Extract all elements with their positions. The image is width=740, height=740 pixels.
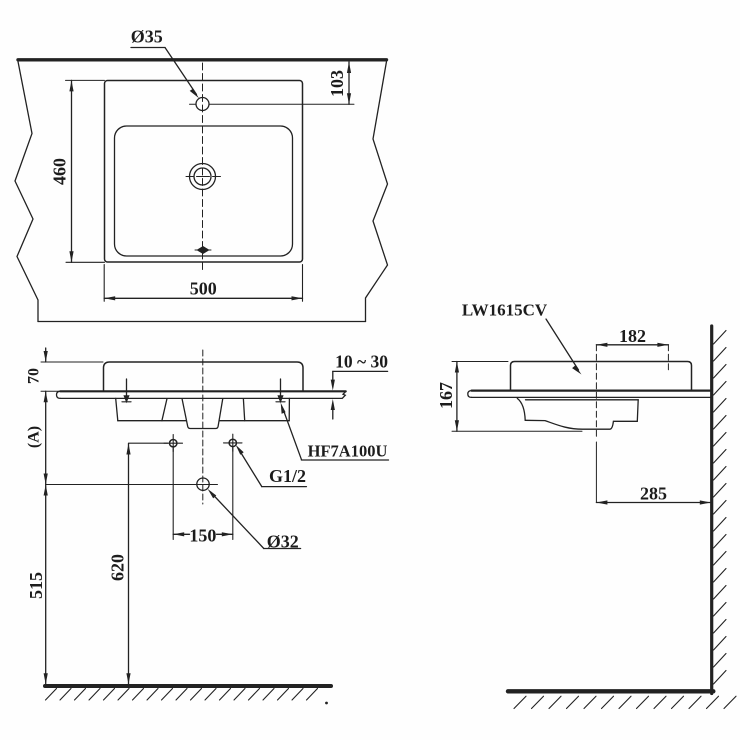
dim 460 ext bottom xyxy=(66,261,105,263)
dim 620 connector xyxy=(129,442,168,444)
dim 182 line xyxy=(596,344,668,346)
under-basin bottom right xyxy=(220,420,289,422)
fixing bolt left xyxy=(126,379,128,396)
floor (side) xyxy=(508,689,713,693)
svg-text:500: 500 xyxy=(190,278,217,298)
dim 285 line xyxy=(596,502,710,504)
label 10~30 underline xyxy=(333,370,388,372)
drain inner circle xyxy=(194,168,211,185)
dim 500 ext right xyxy=(302,265,304,302)
dim (A) line xyxy=(45,391,47,484)
dim 460 line xyxy=(71,80,73,262)
under-basin left edge xyxy=(116,398,118,420)
wall hatch xyxy=(714,331,727,685)
drain h-centerline xyxy=(186,176,194,178)
basin bowl (plan) xyxy=(115,126,293,256)
svg-text:515: 515 xyxy=(26,572,46,599)
label G1/2 leader xyxy=(240,451,262,487)
overflow diamond mark xyxy=(198,247,209,254)
fixing bolt right xyxy=(280,379,282,396)
under-basin right edge xyxy=(288,398,290,420)
side centerline ext solid xyxy=(595,442,597,503)
floor hatch (side) xyxy=(514,696,736,708)
dim 150 ext left xyxy=(172,448,174,540)
drain height line xyxy=(46,484,218,486)
faucet hole h-centerline xyxy=(190,103,197,105)
svg-text:Ø35: Ø35 xyxy=(131,27,163,47)
drain outer circle xyxy=(190,164,216,190)
label O32 underline xyxy=(264,548,301,550)
counter right break (zigzag) xyxy=(366,62,388,322)
basin body (front) xyxy=(104,362,304,391)
label O35 underline xyxy=(131,47,165,49)
counter bottom line (side) xyxy=(472,396,712,398)
svg-text:103: 103 xyxy=(327,70,347,97)
supply hole left (G1/2) xyxy=(170,440,177,447)
dim 515 line xyxy=(45,485,47,685)
under-basin bottom left xyxy=(118,420,187,422)
floor hatch (front) xyxy=(46,689,318,701)
dim 500 ext left xyxy=(103,265,105,302)
basin outer rim (plan) xyxy=(105,81,303,263)
drain funnel (front) xyxy=(182,399,223,429)
svg-text:150: 150 xyxy=(189,525,216,545)
counter ext line xyxy=(41,390,60,392)
dim 150 ext right xyxy=(232,447,234,540)
label LW1615CV leader xyxy=(546,319,579,370)
label 10~30 drop + arrows xyxy=(332,371,334,383)
under-basin left divider xyxy=(162,399,167,421)
svg-text:70: 70 xyxy=(26,368,43,384)
floor (front) xyxy=(45,684,331,688)
under-basin shoulder (side) xyxy=(526,399,639,401)
faucet hole xyxy=(196,98,209,111)
dim 182 right ext (dashed) xyxy=(667,345,669,372)
wall line xyxy=(710,326,713,694)
dim 500 line xyxy=(104,297,302,299)
label HF7A100U leader xyxy=(283,409,302,460)
side centerline dashed xyxy=(595,345,597,438)
dim 620 line xyxy=(128,444,130,685)
dim 103 ext xyxy=(210,103,355,105)
label O32 leader xyxy=(211,492,264,549)
counter left break (zigzag) xyxy=(15,62,38,322)
dim 460 ext top xyxy=(66,79,105,81)
drain hole (front, O32) xyxy=(197,478,209,490)
front vertical centerline xyxy=(202,350,204,504)
svg-text:182: 182 xyxy=(619,326,646,346)
dim 167 ext top xyxy=(452,361,508,363)
svg-text:LW1615CV: LW1615CV xyxy=(462,301,548,320)
counter top edge xyxy=(18,58,387,61)
svg-text:HF7A100U: HF7A100U xyxy=(308,441,388,460)
under-basin left curve (side) xyxy=(517,398,525,420)
counter top line (side) xyxy=(472,390,712,392)
counter right break xyxy=(342,391,346,398)
label O35 leader xyxy=(165,48,197,95)
plan vertical centerline xyxy=(202,63,204,273)
dim 167 line xyxy=(456,362,458,432)
counter left end cap (side) xyxy=(468,391,472,398)
svg-text:(A): (A) xyxy=(26,426,43,448)
svg-text:460: 460 xyxy=(50,158,70,185)
under-basin right divider xyxy=(243,399,244,421)
dim 70 upper arrow xyxy=(45,348,47,362)
supply hole right (G1/2) xyxy=(229,439,236,446)
dim 103 line xyxy=(348,62,350,104)
svg-text:167: 167 xyxy=(436,382,456,409)
overflow mark line xyxy=(195,249,211,251)
label G1/2 underline xyxy=(262,486,307,488)
dim 70 ext (basin top) xyxy=(41,361,103,363)
label HF7A100U underline xyxy=(301,459,388,461)
counter left end cap xyxy=(57,391,61,398)
under-basin bottom + drain boss (side) xyxy=(525,400,638,429)
dim 150 line xyxy=(173,533,189,535)
counter top line (front) xyxy=(60,390,345,392)
svg-text:620: 620 xyxy=(108,554,128,581)
svg-text:10 ~ 30: 10 ~ 30 xyxy=(335,351,388,371)
counter bottom edge xyxy=(38,321,366,323)
basin body (side) xyxy=(511,362,692,391)
floor hatch dot xyxy=(325,702,328,705)
svg-text:285: 285 xyxy=(640,484,667,504)
svg-text:G1/2: G1/2 xyxy=(269,466,306,486)
dim 167 ext bottom xyxy=(452,430,582,432)
counter bottom line (front) xyxy=(60,397,341,399)
